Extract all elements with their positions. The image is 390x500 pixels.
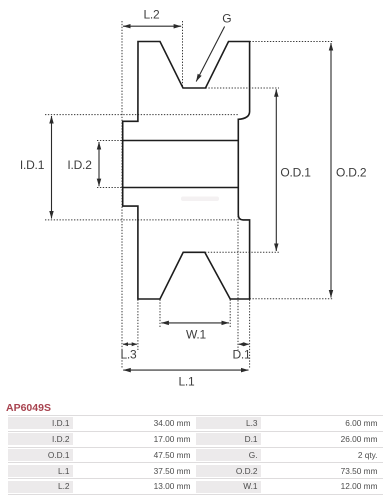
svg-text:O.D.1: O.D.1 bbox=[280, 166, 311, 180]
svg-text:D.1: D.1 bbox=[232, 348, 251, 362]
svg-text:G: G bbox=[222, 12, 231, 26]
svg-text:L.3: L.3 bbox=[120, 348, 137, 362]
svg-text:I.D.1: I.D.1 bbox=[20, 158, 45, 172]
svg-text:L.1: L.1 bbox=[178, 375, 195, 389]
svg-text:L.2: L.2 bbox=[143, 8, 160, 22]
svg-text:I.D.2: I.D.2 bbox=[67, 158, 92, 172]
svg-text:W.1: W.1 bbox=[186, 328, 207, 342]
svg-text:O.D.2: O.D.2 bbox=[336, 166, 367, 180]
